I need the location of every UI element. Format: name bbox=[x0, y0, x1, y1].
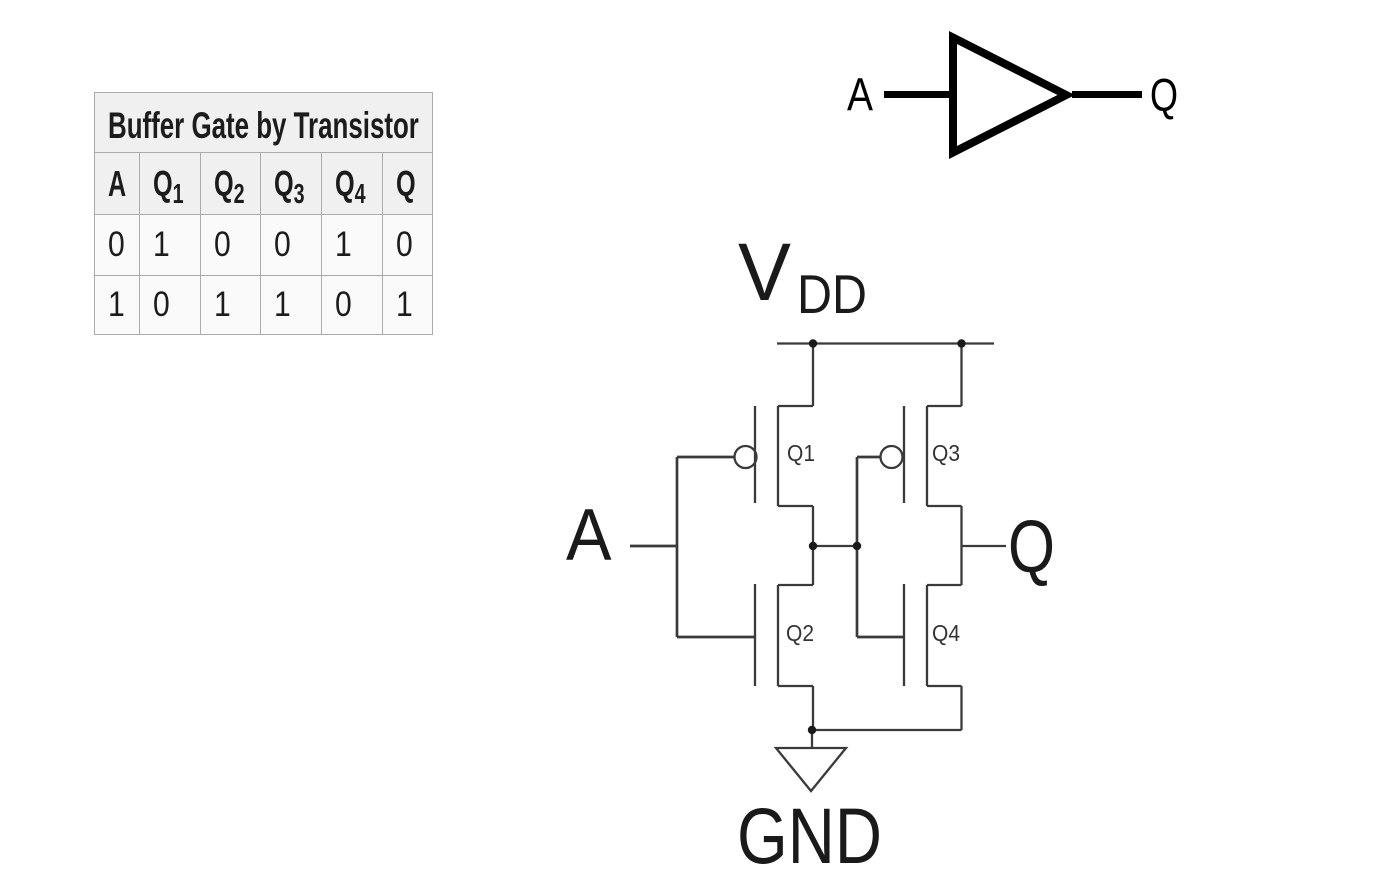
svg-text:Q3: Q3 bbox=[932, 440, 960, 466]
svg-text:DD: DD bbox=[797, 263, 867, 325]
svg-text:GND: GND bbox=[737, 791, 882, 880]
svg-text:Q1: Q1 bbox=[787, 440, 815, 466]
svg-text:Q4: Q4 bbox=[932, 620, 960, 646]
svg-text:V: V bbox=[738, 227, 791, 318]
svg-text:A: A bbox=[566, 495, 612, 576]
svg-text:A: A bbox=[847, 69, 873, 121]
svg-text:Q2: Q2 bbox=[786, 620, 814, 646]
svg-text:Q: Q bbox=[1150, 69, 1178, 121]
svg-text:Q: Q bbox=[1008, 505, 1055, 588]
